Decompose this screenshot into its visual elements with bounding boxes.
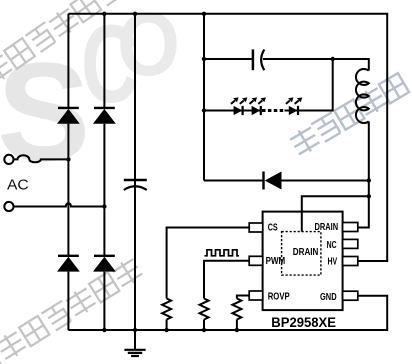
node top rail / right leg [102,12,106,16]
node AC bottom / right leg [102,204,106,208]
wire drain top entry [302,196,369,231]
wire bridge right leg [103,14,105,330]
PWM square wave icon [205,250,240,256]
node rail / cap branch [133,328,137,332]
pin PWM stub [249,256,263,265]
watermark text bottom-left [0,256,144,364]
LED D8 [289,106,298,115]
wire LED row [204,59,333,111]
LED D6 [234,106,243,115]
wire boost node vertical and freewheel row [204,14,369,181]
svg-text:HV: HV [328,256,338,268]
svg-text:PWM: PWM [266,255,286,267]
capacitor C1 [124,180,147,190]
watermark text right [288,72,409,157]
capacitor C2 [253,49,264,70]
svg-text:BP2958XE: BP2958XE [271,315,336,331]
svg-text:DRAIN: DRAIN [293,246,319,258]
diode D2 [93,108,116,124]
dashed internal DRAIN box [282,232,321,276]
wire bottom rail to GND [68,296,387,330]
fuse F1 [14,155,69,162]
pin HV stub [343,257,358,266]
ground symbol [124,350,145,356]
AC terminal top [4,155,13,164]
node boost / LED row [202,108,206,112]
svg-text:CS: CS [268,222,278,234]
node top rail / cap branch [133,12,137,16]
IC U1 body [263,212,343,311]
wire bridge left leg [67,14,69,330]
diode D4 [93,256,116,272]
wire AC bottom with crossover hop [13,203,104,206]
wire drain internal [301,212,303,232]
node AC top / left leg [66,157,70,161]
node rail / R3 [235,328,239,332]
pin DRAIN stub [343,223,358,232]
node boost / cap row [202,57,206,61]
node drain top / inductor [367,194,371,198]
node cap row / LED return [331,57,335,61]
diode D5 freewheel [264,172,282,190]
node rail / R2 [202,328,206,332]
wire top rail to HV [68,14,387,261]
wire ROVP to R3 [237,296,249,331]
AC terminal bottom [4,202,13,211]
LED D6 arrows [231,97,247,104]
svg-text:DRAIN: DRAIN [315,221,339,233]
svg-text:GND: GND [320,291,337,303]
pin ROVP stub [249,291,263,300]
ground stem [134,330,136,350]
node rail / right leg [102,328,106,332]
node freewheel / inductor [367,178,371,182]
wire inductor to DRAIN pin [358,121,369,227]
wire CS to R1 [167,228,250,331]
resistor R1 [162,299,171,320]
resistor R3 [232,299,241,320]
wire output cap row [204,59,369,71]
wire capacitor branch [134,14,136,330]
svg-text:NC: NC [327,239,337,251]
node top rail / boost [202,12,206,16]
node rail / R1 [164,328,168,332]
pin GND stub [343,291,358,300]
resistor R2 [200,299,209,320]
pin CS stub [249,223,263,232]
diode D3 [57,256,80,272]
svg-text:AC: AC [7,176,29,193]
LED D7 [252,106,261,115]
LED D8 arrows [286,97,302,104]
pin NC stub [343,239,358,248]
dashed LED continuation [262,109,285,112]
LED D7 arrows [250,97,266,104]
inductor L1 [356,69,369,123]
svg-text:ROVP: ROVP [268,290,290,302]
wire PWM to R2 [204,261,249,330]
watermark text top-left [0,0,125,86]
diode D1 [57,108,80,124]
